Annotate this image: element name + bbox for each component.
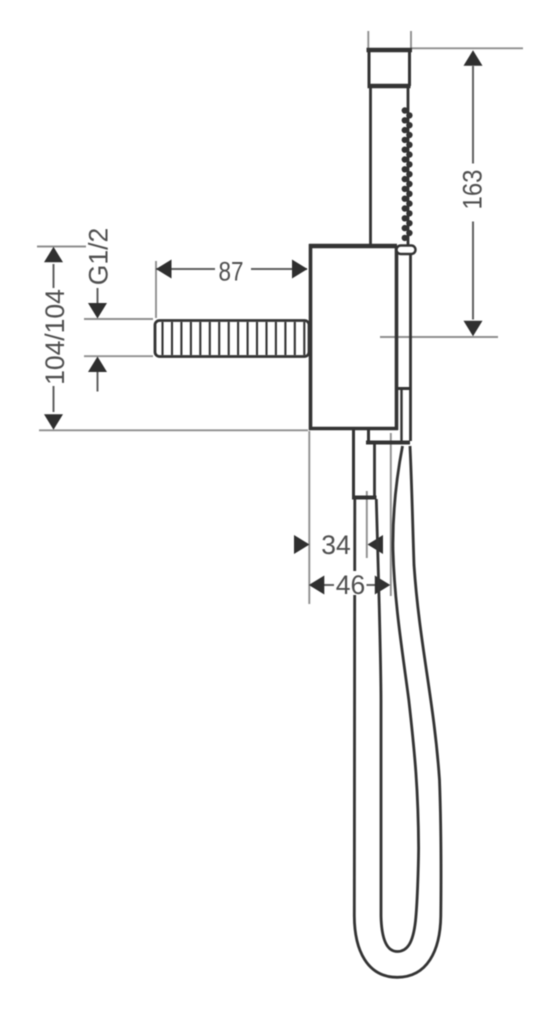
wand top-left extension line	[367, 31, 369, 48]
dim G1/2 dimension line	[97, 288, 99, 392]
svg-text:87: 87	[219, 257, 244, 287]
dim G1/2 upper extension tick	[84, 318, 153, 320]
dim G1/2 lower extension tick	[84, 355, 153, 357]
dim 87 dimension line	[156, 268, 307, 270]
hose connector cone	[366, 254, 411, 443]
spray nozzle bead strip	[402, 107, 413, 241]
white mask behind 46 label	[335, 571, 366, 595]
svg-text:104/104: 104/104	[40, 289, 70, 385]
bottom outlet elbow	[352, 430, 377, 498]
dim 104/104 top extension tick	[37, 246, 86, 248]
dim 46 dimension line	[324, 584, 375, 586]
svg-text:46: 46	[336, 570, 365, 600]
wall-mount body	[309, 244, 398, 430]
holder pivot pill	[397, 246, 416, 255]
svg-text:163: 163	[458, 170, 488, 210]
hand shower handle	[371, 86, 409, 247]
dim 104/104 bottom extension line	[39, 429, 308, 431]
ribbed wall spout (87 mm)	[155, 321, 309, 357]
dim 104/104 dimension line	[53, 264, 55, 412]
dim 34 right extension line	[366, 491, 368, 558]
dim 87 arrowheads	[156, 260, 308, 279]
dim 87 left extension line	[155, 261, 157, 318]
svg-text:34: 34	[321, 530, 350, 560]
dim G1/2 arrowheads	[88, 303, 107, 372]
shower hose outer wall	[354, 446, 441, 977]
dim 163 top extension line	[412, 47, 524, 49]
dim 34/46 shared left extension line	[308, 431, 310, 604]
svg-text:G1/2: G1/2	[84, 228, 114, 285]
dim 104/104 arrowheads	[44, 247, 63, 430]
dim 163 arrowheads	[464, 50, 483, 336]
wand top-right extension line	[410, 31, 412, 48]
dim 34 arrowheads	[294, 535, 383, 554]
dim 46 right extension line	[390, 433, 392, 596]
hand shower cap	[367, 48, 413, 86]
dim 163 dimension line	[472, 66, 474, 320]
dim 163 bottom leader line at holder	[380, 336, 498, 338]
dim 46 arrowheads	[309, 576, 391, 595]
shower hose inner wall	[376, 446, 418, 952]
